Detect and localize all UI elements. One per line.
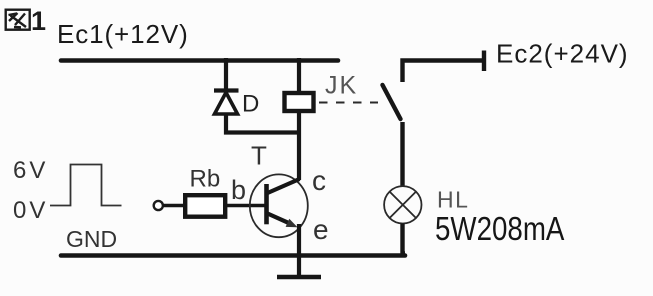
wire switch to lamp [400,122,404,186]
wire node to Rb [163,204,186,208]
transistor T circle [250,174,308,237]
svg-text:0V: 0V [13,197,48,224]
wire diode branch [224,58,228,90]
ground symbol bar [277,275,321,279]
svg-text:JK: JK [325,72,358,100]
lamp HL cross [390,192,416,218]
transistor T emitter stroke [268,214,291,224]
figure label 图1 [6,10,30,30]
svg-text:GND: GND [66,226,117,252]
svg-text:HL: HL [437,187,469,213]
switch JK blade [383,85,401,119]
svg-text:1: 1 [31,6,46,36]
input pulse waveform [50,165,122,206]
wire emitter to ground [297,224,301,277]
svg-text:Rb: Rb [190,166,221,193]
svg-text:Ec2(+24V): Ec2(+24V) [496,39,629,69]
wire relay branch [297,58,301,92]
resistor Rb box [185,195,225,217]
diode D triangle [215,93,238,115]
wire lamp to ground rail [403,224,406,254]
svg-text:c: c [312,165,326,196]
input node terminal [154,201,163,210]
wire Rb to base [226,204,266,208]
dashed link relay to switch [319,102,378,104]
svg-text:6V: 6V [13,157,48,184]
transistor T emitter arrowhead [286,219,298,228]
diode D cathode bar [214,88,239,92]
svg-text:T: T [251,141,267,171]
power rail Ec1 [61,58,338,63]
ground rail [61,253,405,258]
transistor T base bar [264,184,269,224]
Ec2 terminal bar [482,51,486,72]
svg-text:b: b [231,175,246,205]
svg-text:e: e [313,214,329,245]
wire diode bottom to junction [226,113,299,133]
transistor T collector stroke [268,179,300,193]
svg-text:Ec1(+12V): Ec1(+12V) [57,19,189,49]
Ec2 terminal feed wire [403,61,484,83]
wire relay bottom / collector feed [297,111,301,180]
svg-text:D: D [242,91,259,118]
relay coil JK box [285,93,314,111]
svg-text:5W208mA: 5W208mA [435,211,565,248]
lamp HL circle [384,186,421,223]
